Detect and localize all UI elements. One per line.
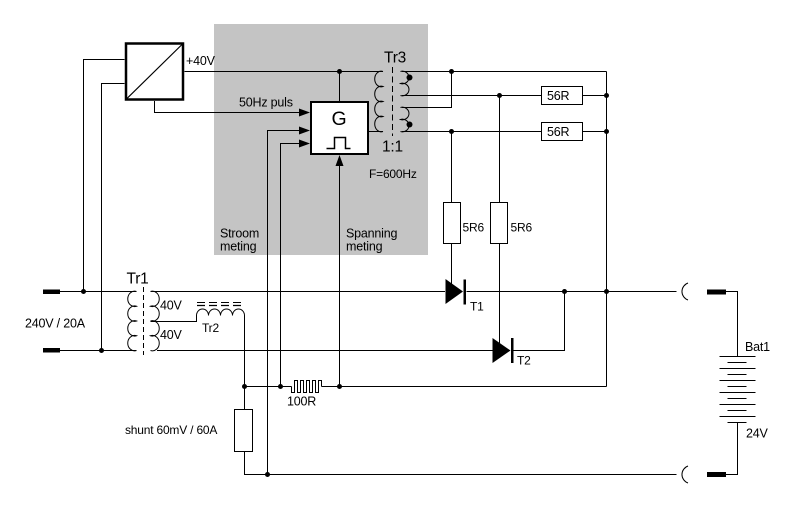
input terminal bar bottom: [43, 348, 60, 353]
resistor 5R6 a: [444, 203, 461, 244]
svg-text:Bat1: Bat1: [745, 340, 770, 354]
Tr1 secondary winding 1: [151, 291, 160, 321]
wire Tr3 sec winding2 top to node: [402, 72, 452, 108]
svg-text:240V / 20A: 240V / 20A: [25, 317, 86, 331]
node stroom sense 1 / battery minus wire: [265, 472, 270, 477]
wire 240V input top: [60, 291, 137, 293]
svg-text:+40V: +40V: [186, 54, 216, 68]
wire 240V input bottom: [60, 350, 137, 352]
Tr3 secondary winding 1: [401, 71, 409, 96]
wire Tr1 center tap to Tr2: [151, 316, 197, 322]
resistor 56R a: [542, 87, 583, 105]
node Tr3 sec w1 bottom: [497, 93, 502, 98]
resistor 100R meander: [292, 381, 322, 393]
wire 5R6 b to thyristor T2 anode: [499, 244, 501, 343]
node shunt top: [242, 384, 247, 389]
resistor 56R b: [542, 123, 583, 141]
svg-text:56R: 56R: [547, 125, 570, 139]
Tr3 phase dot 1: [407, 75, 413, 81]
Tr3 core: [392, 67, 394, 136]
Tr1 primary winding: [128, 291, 137, 351]
Tr2 winding: [197, 309, 245, 316]
wire stroom meting sense 1: [268, 131, 302, 475]
wire G top to +40V node: [339, 72, 341, 102]
node right rail / positive rail: [604, 289, 609, 294]
transformer Tr3: [375, 67, 409, 136]
wire G output to Tr3 primary bottom: [369, 131, 384, 133]
node 240V top / rectifier: [81, 289, 86, 294]
svg-text:1:1: 1:1: [382, 139, 403, 156]
svg-text:24V: 24V: [746, 427, 769, 441]
node spanning sense: [337, 384, 342, 389]
battery terminal bar negative: [707, 472, 726, 477]
Tr2 core lines: [197, 302, 243, 304]
wire stroom meting sense 2: [281, 144, 302, 387]
wire shunt bottom to battery minus: [245, 452, 677, 475]
wire 240V top to rectifier input 1: [84, 60, 125, 292]
wire +40V rail from rectifier to Tr3 primary top: [185, 71, 384, 73]
arrowhead input 3: [299, 140, 310, 148]
wire T2 cathode riser to positive rail: [514, 292, 565, 351]
node 56R b right: [604, 129, 609, 134]
wire battery minus lead: [726, 423, 738, 475]
Tr1 core: [143, 287, 145, 355]
svg-text:5R6: 5R6: [511, 221, 533, 235]
wire 50Hz puls from rectifier bottom to G input 1: [155, 101, 302, 113]
current transformer Tr2: [197, 303, 245, 316]
svg-text:Spanning: Spanning: [346, 227, 397, 241]
wire Tr1 secondary bottom to T2: [157, 350, 493, 352]
wire battery plus lead: [726, 292, 738, 357]
node T2 riser / positive rail: [562, 289, 567, 294]
arrowhead bottom input: [336, 155, 344, 166]
wire right vertical rail: [606, 72, 608, 387]
svg-text:40V: 40V: [160, 328, 183, 342]
transformer Tr1: [128, 287, 160, 355]
wire 240V bottom to rectifier input 2: [102, 84, 125, 351]
svg-text:5R6: 5R6: [463, 221, 485, 235]
wire Tr3 sec winding2 bottom to 56R b: [402, 131, 542, 133]
wire node to 5R6 a: [451, 132, 453, 203]
svg-text:T2: T2: [517, 354, 531, 368]
svg-text:Tr1: Tr1: [127, 271, 149, 288]
shunt resistor: [235, 410, 253, 452]
resistor 5R6 b: [491, 203, 508, 244]
arrowhead input 2: [299, 127, 310, 135]
svg-text:meting: meting: [220, 240, 257, 254]
svg-text:F=600Hz: F=600Hz: [369, 167, 417, 181]
svg-text:Tr3: Tr3: [384, 50, 406, 67]
svg-text:56R: 56R: [547, 89, 570, 103]
Tr3 phase dot 2: [407, 122, 413, 128]
thyristor T2: [493, 338, 511, 363]
wire node to 5R6 b: [499, 96, 501, 203]
wire T1 cathode to positive rail: [467, 291, 677, 293]
wire shunt node to 100R: [245, 386, 292, 388]
wire Tr2 to shunt node: [244, 316, 246, 387]
wire spanning meting from G bottom: [339, 163, 341, 387]
wire 56R a to right rail: [583, 95, 607, 97]
wire shunt top lead: [244, 387, 246, 411]
Tr1 secondary winding 2: [151, 321, 160, 351]
connector socket negative: [682, 466, 688, 483]
node stroom sense 2: [278, 384, 283, 389]
svg-text:Tr2: Tr2: [202, 321, 219, 335]
shaded control region: [214, 24, 428, 255]
svg-text:40V: 40V: [160, 299, 183, 313]
pulse generator U1 G: [311, 102, 368, 154]
node 240V bottom / rectifier: [99, 348, 104, 353]
battery terminal bar positive: [707, 290, 726, 295]
svg-text:shunt 60mV / 60A: shunt 60mV / 60A: [125, 423, 217, 437]
svg-text:meting: meting: [346, 240, 383, 254]
wire Tr3 secondary top to rail: [402, 71, 607, 73]
wire 5R6 a to thyristor T1 anode: [451, 244, 453, 284]
connector socket positive: [682, 283, 688, 300]
pulse waveform glyph: [327, 138, 351, 149]
svg-text:G: G: [332, 108, 347, 130]
arrowhead input 1: [299, 109, 310, 117]
thyristor T1: [446, 279, 464, 304]
wire 100R to right rail: [322, 386, 607, 388]
node Tr3 sec w2 bottom: [449, 129, 454, 134]
node +40V / G supply: [337, 69, 342, 74]
Tr3 primary winding: [375, 71, 383, 132]
wire Tr1 secondary top to T1: [151, 291, 446, 293]
svg-text:Stroom: Stroom: [220, 227, 259, 241]
wire 56R b to right rail: [583, 131, 607, 133]
rectifier / power supply block: [126, 44, 183, 100]
svg-text:T1: T1: [470, 300, 484, 314]
svg-text:50Hz puls: 50Hz puls: [239, 96, 293, 110]
input terminal bar top: [43, 290, 60, 295]
wire Tr3 sec winding1 bottom to 56R a: [402, 95, 542, 97]
node 56R a right: [604, 93, 609, 98]
battery Bat1: [720, 357, 756, 423]
svg-text:100R: 100R: [287, 395, 316, 409]
Tr3 secondary winding 2: [401, 107, 409, 132]
node Tr3 sec top: [449, 69, 454, 74]
